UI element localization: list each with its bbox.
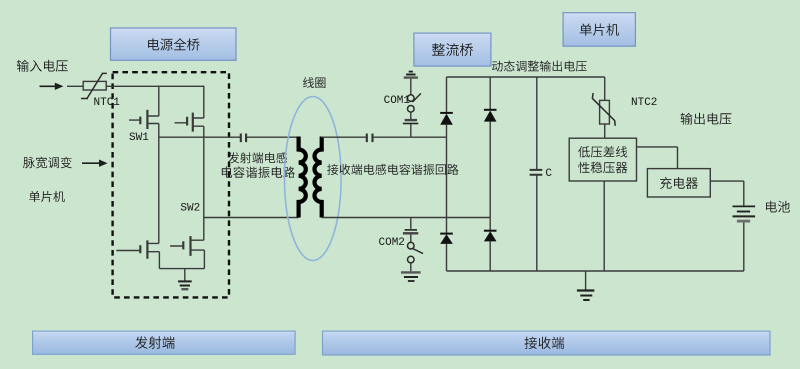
capacitor C1 (TX resonant, series)	[241, 134, 246, 143]
switch COM1	[408, 95, 415, 102]
ground (receiver main)	[585, 271, 587, 290]
ground (COM1 top, inverted)	[409, 71, 413, 73]
capacitor (COM2 branch)	[405, 229, 417, 231]
wire: C2 to bridge left branch	[373, 136, 446, 138]
wire: NTC1 to bridge top rail	[106, 85, 204, 87]
transistor Q2 (top-right MOSFET)	[175, 118, 204, 126]
label box 单片机 (MCU)	[563, 13, 635, 47]
label text 发射端	[135, 336, 175, 349]
ground (transmitter bridge)	[184, 269, 186, 282]
label 输入电压 (input voltage)	[17, 60, 68, 72]
label text 整流桥	[432, 43, 473, 56]
wire: COM2 cap to switch	[410, 234, 412, 242]
label text 电源全桥	[148, 38, 200, 51]
block U3: charger 充电器	[647, 169, 710, 197]
battery BT1	[733, 205, 756, 207]
svg-text:NTC1: NTC1	[94, 97, 121, 109]
diode D2 (upper right)	[484, 109, 497, 111]
coupling ellipse around coils	[285, 97, 342, 261]
wire: C branch upper	[536, 77, 538, 169]
transistor Q4 (bottom-right MOSFET)	[170, 240, 204, 250]
dashed enclosure: power full-bridge	[113, 72, 229, 297]
label 性稳压器 (LDO line 2)	[578, 162, 627, 174]
switch COM2	[408, 242, 415, 249]
block U2: LDO 低压差线性稳压器	[569, 138, 636, 181]
wire: SW1 node column (Q1 source to Q3 drain)	[158, 124, 160, 244]
label bar 发射端 (transmitter)	[33, 331, 296, 354]
wire: bridge top rail	[447, 76, 605, 78]
wire: NTC2 to LDO box	[604, 124, 606, 138]
label 发射端电感 (line 1)	[228, 152, 287, 163]
label 脉宽调变 (PWM)	[23, 157, 72, 169]
svg-text:NTC2: NTC2	[631, 97, 657, 109]
wire: Q1 drain up to rail	[158, 86, 160, 116]
label 充电器	[660, 177, 698, 189]
label 单片机 (MCU, left)	[29, 191, 65, 202]
thermistor NTC2 diagonal	[592, 93, 615, 126]
wire: right branch lower	[489, 241, 491, 271]
wire: Q3 source down	[158, 252, 160, 269]
thermistor NTC2 body	[600, 100, 610, 124]
label bar 接收端 (receiver)	[323, 331, 771, 355]
inductor L2 (RX coil)	[314, 137, 321, 218]
capacitor C (smoothing)	[530, 170, 543, 175]
capacitor C2 (RX resonant, series)	[367, 134, 373, 143]
diode D4 (lower right)	[484, 230, 497, 232]
wire: right branch middle	[489, 122, 491, 231]
wire: SW1 node to C1	[159, 136, 240, 138]
label 动态调整输出电压	[492, 61, 587, 72]
label 低压差线 (LDO line 1)	[578, 146, 627, 158]
input voltage arrow	[40, 85, 57, 87]
wire: Q2 drain up to rail	[203, 86, 205, 118]
inductor L1 (TX coil)	[299, 137, 306, 218]
label 输出电压 (output voltage)	[681, 113, 732, 125]
wire: RX coil to C2	[322, 136, 366, 138]
wire: bridge bottom rail	[159, 268, 204, 270]
wire: COM1 switch to cap	[410, 112, 412, 119]
wire: left branch upper	[446, 77, 448, 113]
wire: COM1 ground to switch	[410, 79, 412, 95]
wire: left branch lower	[446, 244, 448, 271]
wire: C1 to TX coil	[247, 136, 299, 138]
label text 单片机	[580, 24, 619, 36]
transistor Q1 (SW1 top-left MOSFET)	[129, 116, 159, 124]
wire: RX coil bottom to bridge right branch	[322, 217, 491, 219]
wire: battery to bottom rail	[743, 223, 745, 272]
wire: SW2 node to TX coil bottom	[204, 217, 299, 219]
label 线圈 (coil)	[303, 77, 325, 88]
capacitor (COM1 branch)	[405, 119, 417, 121]
wire: charger right to battery	[710, 181, 744, 206]
ground (COM2 bottom)	[401, 271, 421, 273]
svg-text:C: C	[545, 168, 552, 180]
svg-text:COM2: COM2	[379, 237, 405, 249]
label 电容谐振电路 (line 2)	[222, 166, 295, 178]
wire: LDO right to charger	[637, 147, 678, 169]
label box 电源全桥 (power full-bridge)	[111, 28, 237, 60]
wire: COM2 switch to ground	[410, 263, 412, 271]
label text 接收端	[525, 337, 565, 349]
wire: left branch middle	[446, 125, 448, 234]
wire: COM1 cap to RX top wire	[410, 124, 412, 137]
wire: output bottom rail	[447, 270, 744, 272]
wire: Q2 source down to SW2 node column	[203, 126, 205, 240]
thermistor NTC1 body	[83, 81, 106, 90]
svg-text:COM1: COM1	[384, 95, 411, 107]
diode D3 (lower left)	[440, 233, 453, 235]
wire: Q4 source down	[203, 250, 205, 269]
thermistor NTC1 diagonal	[81, 73, 107, 98]
wire: right branch upper	[489, 77, 491, 110]
wire: RX bottom wire to COM2 cap	[410, 218, 412, 229]
wire: input to NTC1	[67, 85, 83, 87]
label 电池 (battery)	[766, 201, 790, 213]
wire: C branch lower	[536, 176, 538, 271]
PWM arrow	[82, 162, 101, 164]
label box 整流桥 (rectifier bridge)	[414, 33, 491, 66]
diode D1 (upper left)	[440, 112, 453, 114]
wire: LDO bottom to ground rail	[603, 181, 605, 271]
svg-text:SW1: SW1	[129, 132, 149, 144]
transistor Q3 (bottom-left MOSFET)	[116, 243, 159, 251]
wire: rail corner down to NTC2	[604, 77, 606, 100]
svg-text:SW2: SW2	[180, 202, 200, 214]
label 接收端电感电容谐振回路	[327, 164, 458, 175]
